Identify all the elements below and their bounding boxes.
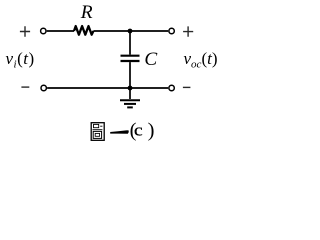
- svg-text:vi(t): vi(t): [6, 49, 35, 70]
- caption glyph 圖: [91, 123, 104, 141]
- svg-text:C: C: [144, 49, 157, 70]
- node - sign bottom-right: [183, 86, 191, 88]
- svg-text:R: R: [80, 2, 93, 23]
- node + sign top-right: [183, 26, 193, 36]
- ground: [120, 88, 140, 107]
- terminal bottom-left: [41, 85, 46, 90]
- terminal bottom-right: [169, 85, 174, 90]
- caption text c: [134, 121, 143, 139]
- caption glyph 一: [110, 130, 129, 134]
- node - sign bottom-left: [21, 86, 29, 88]
- svg-text:): ): [148, 119, 155, 141]
- capacitor C plates: [121, 56, 140, 61]
- junction top node: [128, 29, 133, 34]
- svg-text:c: c: [134, 121, 143, 139]
- wire bottom rail: [47, 87, 168, 89]
- wire capacitor top lead: [129, 31, 131, 55]
- node + sign top-left: [20, 26, 30, 36]
- wire top-left segment: [47, 30, 74, 32]
- terminal top-left: [41, 28, 46, 33]
- svg-text:voc(t): voc(t): [184, 49, 218, 70]
- terminal top-right: [169, 28, 174, 33]
- wire top-right segment: [93, 30, 168, 32]
- resistor R: [74, 26, 93, 35]
- junction bottom node: [128, 86, 133, 91]
- wire capacitor bottom lead: [129, 62, 131, 88]
